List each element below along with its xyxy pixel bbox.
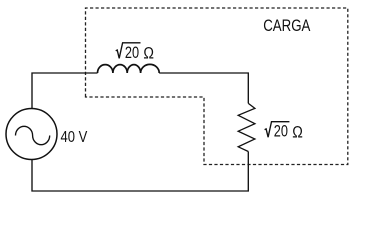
svg-text:20: 20 (125, 43, 139, 62)
svg-text:20: 20 (274, 122, 288, 141)
svg-text:CARGA: CARGA (263, 16, 311, 35)
svg-text:Ω: Ω (292, 123, 303, 142)
svg-text:Ω: Ω (143, 44, 154, 63)
svg-text:40 V: 40 V (61, 129, 88, 146)
